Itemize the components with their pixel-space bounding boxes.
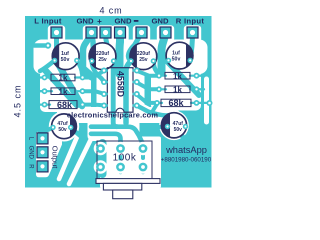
capacitor C5 47uf 50v xyxy=(50,114,76,139)
wire GND4 column xyxy=(116,34,125,74)
svg-text:+8801980-060190: +8801980-060190 xyxy=(161,156,212,163)
pin pad VR1 top right xyxy=(139,144,148,153)
wire + pad to C2 xyxy=(106,33,114,59)
etch region output pads strip xyxy=(36,132,62,178)
svg-text:68k: 68k xyxy=(168,98,184,108)
pin pad VR1 top mid xyxy=(116,144,125,153)
pin pad U1 pin8 xyxy=(134,68,140,74)
etch region website text band xyxy=(57,107,168,123)
svg-text:GND: GND xyxy=(151,17,169,26)
etch channel R6 to C6 xyxy=(137,106,176,116)
PCB board copper pour xyxy=(25,16,212,188)
connector pad output GND xyxy=(37,147,48,158)
pin pad U1 pin3 xyxy=(101,91,107,97)
etch region capacitor row xyxy=(34,40,208,75)
resistor R1 1k xyxy=(51,74,75,83)
svg-text:R Input: R Input xyxy=(176,17,205,26)
svg-text:68k: 68k xyxy=(57,100,73,110)
svg-text:+: + xyxy=(97,17,102,26)
svg-text:100k: 100k xyxy=(113,153,137,164)
node top left corner pad xyxy=(45,42,51,48)
wire C6 left stub xyxy=(160,124,166,129)
etch region around C5 xyxy=(49,111,79,141)
connector pad plus xyxy=(100,27,111,38)
pin pad U1 pin4 xyxy=(101,103,107,109)
svg-text:50v: 50v xyxy=(58,127,67,133)
wire C1 right down xyxy=(77,61,83,77)
wire stub right border R5 xyxy=(197,88,205,90)
connector pad GND 3 xyxy=(160,27,171,38)
pin pad VR1 bottom mid xyxy=(116,163,125,172)
wire pot bottom stub left xyxy=(99,167,103,173)
pin pad VR1 bottom left xyxy=(96,163,105,172)
svg-text:25v: 25v xyxy=(139,57,148,63)
wire R5 to IC pin 6 xyxy=(137,83,159,90)
wire R1 to IC pin 1 xyxy=(83,71,105,78)
svg-text:50v: 50v xyxy=(61,57,70,63)
wire GND2 branch down xyxy=(83,35,91,73)
connector pad L Input xyxy=(51,27,62,38)
node R5 right pad xyxy=(194,86,200,92)
wire C4 left diagonal xyxy=(166,60,199,95)
etch region right resistors xyxy=(151,66,201,111)
node R3 right pad xyxy=(80,102,86,108)
wire pot stub below top right xyxy=(141,152,145,158)
potentiometer VR1 100k outline xyxy=(97,141,152,180)
wire C2 left to IC pin xyxy=(92,61,104,82)
wire pot bottom stub mid xyxy=(119,167,123,173)
resistor R2 1k xyxy=(51,87,75,96)
wire R input pad to C4 xyxy=(190,33,192,59)
resistor lead wires xyxy=(45,76,197,105)
node R2 right pad xyxy=(80,88,86,94)
svg-text:4.5 cm: 4.5 cm xyxy=(13,84,23,117)
wire GND2 base wedge xyxy=(84,70,92,77)
wire R3 to IC pin 4 xyxy=(83,103,105,108)
resistor R6 68k xyxy=(161,98,191,108)
svg-text:50v: 50v xyxy=(172,56,181,62)
wire C5 right pad to diagonal xyxy=(71,128,81,137)
pin pad U1 pin2 xyxy=(101,79,107,85)
connector pad GND 2 xyxy=(115,27,126,38)
svg-text:Output: Output xyxy=(50,146,59,170)
wire C6 bottom to ground xyxy=(181,135,186,142)
svg-text:GND: GND xyxy=(28,146,34,160)
etch channel diagonal A xyxy=(59,137,77,179)
wire R6 left to C6 top xyxy=(137,106,176,116)
wire C1 left to R1 xyxy=(40,61,55,72)
wire stub right border R6 xyxy=(197,102,210,104)
capacitor C2 220uf 25v xyxy=(89,43,116,70)
wire stub top left corner xyxy=(34,43,45,48)
wire V+ rail under IC to pot xyxy=(113,59,117,127)
svg-text:1k: 1k xyxy=(59,74,68,83)
node R4 left pad xyxy=(156,73,162,79)
wire stub left border R3 xyxy=(38,103,45,105)
pin pad U1 pin5 xyxy=(134,103,140,109)
connector pad output L xyxy=(37,133,48,144)
wire L input pad to C1 xyxy=(55,33,56,59)
label minus xyxy=(134,20,139,22)
etch region right 47uf cap xyxy=(159,111,189,141)
wire C5 left pad to border xyxy=(40,128,53,132)
etch region mid traces xyxy=(88,114,140,141)
wire diagonal stripe left 1 xyxy=(45,70,77,105)
potentiometer VR1 bracket xyxy=(96,179,160,199)
wire C3 right to IC pin xyxy=(153,61,159,75)
wire pot bottom stub right xyxy=(141,167,145,173)
connector pad output R xyxy=(37,161,48,172)
pin pad U1 pin7 xyxy=(134,79,140,85)
wire stub left border R1 xyxy=(38,76,45,78)
wire V- rail under IC to pot xyxy=(126,61,131,123)
connector pad GND 1 xyxy=(86,27,97,38)
connector pad minus xyxy=(136,27,147,38)
capacitor C4 1uf 50v xyxy=(166,42,193,69)
etch channel right border xyxy=(204,79,209,122)
node R6 right pad xyxy=(194,100,200,106)
svg-text:25v: 25v xyxy=(98,57,107,63)
wire R6 left stub join xyxy=(153,104,157,111)
etch rings around VR1 pads xyxy=(94,142,150,174)
etch region left resistors xyxy=(40,70,91,112)
etch cutout around connector pads xyxy=(34,25,208,188)
etch region potentiometer xyxy=(100,137,161,189)
node R6 left pad xyxy=(154,100,160,106)
capacitor C3 220uf 25v xyxy=(128,43,157,70)
wire R2 to IC pin 3 xyxy=(83,91,105,94)
node R2 left pad xyxy=(42,88,48,94)
wire GND2 branch to C2 minus xyxy=(92,35,93,58)
svg-text:whatsApp: whatsApp xyxy=(165,145,207,155)
resistor R3 68k xyxy=(49,100,77,110)
traces xyxy=(34,33,210,174)
svg-text:1k: 1k xyxy=(173,72,182,81)
svg-text:GND: GND xyxy=(114,17,132,26)
pin pad VR1 bottom right xyxy=(139,163,148,172)
resistor R4 1k xyxy=(165,72,190,81)
wire pot stub below top mid xyxy=(119,152,123,160)
node R1 right pad xyxy=(80,75,86,81)
etch region IC xyxy=(97,62,145,122)
wire stub left border R2 xyxy=(38,90,45,92)
capacitor C6 47uf 50v xyxy=(161,113,188,138)
wire stub right border R4 xyxy=(197,75,205,77)
pin pad U1 pin6 xyxy=(134,91,140,97)
svg-text:4 cm: 4 cm xyxy=(99,6,122,16)
svg-text:GND: GND xyxy=(76,17,94,26)
wire pot internal left column xyxy=(99,143,107,174)
op-amp U1 4558D body xyxy=(107,68,133,113)
svg-text:50v: 50v xyxy=(174,127,183,133)
pin pad U1 pin1 xyxy=(101,68,107,74)
svg-text:electronicshelpcare.com: electronicshelpcare.com xyxy=(67,111,159,120)
svg-text:L Input: L Input xyxy=(34,17,62,26)
wire GND6 column xyxy=(162,34,166,72)
wire horizontal net 2 to pot mid xyxy=(91,134,121,149)
node R4 right pad xyxy=(194,73,200,79)
wire R6 to IC pin 5 xyxy=(137,95,157,103)
wire - pad to C3 xyxy=(128,33,141,61)
capacitor C1 1uf 50v xyxy=(52,43,80,70)
wire horizontal net 1 to pot right xyxy=(91,127,143,149)
wire R4 to IC pin 8 xyxy=(137,71,159,76)
pin pad VR1 top left xyxy=(96,144,105,153)
svg-text:R: R xyxy=(28,164,34,169)
connector pad R Input xyxy=(187,27,198,38)
node border junction xyxy=(207,100,213,106)
etch channel diagonal B xyxy=(69,137,92,184)
svg-text:1k: 1k xyxy=(173,85,182,94)
pin stubs U1 left xyxy=(104,71,137,106)
wire diagonal stripe left 2 xyxy=(57,62,82,106)
node R5 left pad xyxy=(156,86,162,92)
svg-text:1k: 1k xyxy=(59,87,68,96)
svg-text:4558D: 4558D xyxy=(116,71,126,97)
node R3 left pad xyxy=(42,102,48,108)
resistor R5 1k xyxy=(165,85,190,94)
node R1 left pad xyxy=(42,75,48,81)
